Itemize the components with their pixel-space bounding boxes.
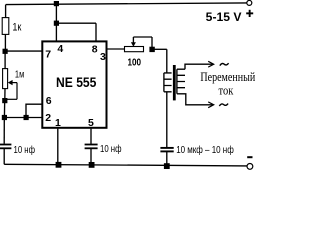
node pin2 bbox=[2, 115, 7, 120]
node C2 / rail bbox=[89, 162, 95, 168]
wire node to potentiometer R2 top bbox=[4, 51, 6, 69]
svg-text:ток: ток bbox=[219, 83, 235, 97]
wire pin8 drop bbox=[95, 23, 97, 40]
wire C4 to bottom rail bbox=[166, 152, 168, 166]
potentiometer R3 100 body bbox=[125, 47, 144, 52]
svg-text:8: 8 bbox=[92, 43, 98, 55]
wire pin6 bbox=[4, 104, 97, 165]
wire R1 bottom to node bbox=[4, 34, 6, 52]
svg-text:1к: 1к bbox=[12, 21, 21, 33]
wire pin7 bbox=[5, 50, 42, 52]
AC tilde symbol bottom bbox=[219, 104, 228, 106]
wire node to pin2 node bbox=[3, 101, 5, 119]
wire R2 bottom lead bbox=[4, 89, 6, 101]
arrow head top output bbox=[208, 61, 214, 67]
wire Vcc drop from top rail bbox=[55, 3, 57, 23]
transformer T1 primary winding bbox=[164, 73, 172, 92]
wire bottom arrow shaft bbox=[210, 104, 213, 106]
svg-text:NE 555: NE 555 bbox=[56, 74, 97, 90]
wire C1 to bottom rail bbox=[3, 149, 5, 164]
wire secondary top lead bbox=[185, 64, 210, 69]
wiper arm of R2 with arrowhead bbox=[5, 83, 17, 100]
wire wiper loop down bbox=[151, 37, 153, 49]
node R1/R2/pin7 bbox=[3, 49, 8, 54]
IC U1 NE 555 timer box bbox=[42, 41, 106, 127]
AC tilde symbol top bbox=[220, 63, 229, 65]
capacitor C2 10nF plates bbox=[85, 144, 98, 146]
wire pin3 to pot R3 bbox=[107, 48, 124, 50]
wire Vcc branch to pin8 bbox=[56, 22, 96, 24]
wire pin4 drop bbox=[55, 23, 57, 40]
wire pin1 bbox=[57, 129, 59, 165]
wire pin2 bbox=[4, 117, 42, 119]
svg-text:3: 3 bbox=[100, 51, 106, 63]
wire pin2 node down to capacitor C1 bbox=[3, 118, 5, 144]
potentiometer R2 1M body bbox=[3, 69, 8, 89]
svg-text:7: 7 bbox=[45, 49, 51, 61]
node pin1 / rail bbox=[56, 162, 62, 168]
wire top rail bbox=[6, 3, 247, 5]
node R3 output bbox=[149, 47, 154, 52]
svg-text:10 мкф – 10 нф: 10 мкф – 10 нф bbox=[176, 144, 234, 156]
svg-text:2: 2 bbox=[45, 112, 51, 124]
minus sign bbox=[247, 156, 252, 158]
transformer T1 secondary winding bbox=[177, 69, 185, 94]
svg-text:4: 4 bbox=[57, 43, 63, 55]
wire C2 to rail bbox=[90, 149, 92, 165]
node top rail / Vcc bbox=[54, 1, 59, 6]
svg-text:Переменный: Переменный bbox=[200, 70, 255, 84]
wire wiper loop top bbox=[133, 36, 152, 38]
wire primary to capacitor C4 bbox=[166, 92, 168, 147]
node R2 wiper return bbox=[2, 98, 7, 103]
wire R3 wiper stem bbox=[132, 37, 134, 43]
wire left rail upper bbox=[5, 5, 7, 18]
wire down to transformer T1 primary bbox=[166, 49, 168, 73]
wire top arrow shaft bbox=[210, 63, 213, 65]
transformer core bbox=[173, 65, 176, 100]
node C4 / rail bbox=[164, 163, 170, 169]
node pin6 branch bbox=[24, 115, 29, 120]
svg-text:10 нф: 10 нф bbox=[14, 144, 36, 156]
terminal ground circle bbox=[247, 164, 253, 170]
wire output node to transformer bbox=[152, 48, 167, 50]
resistor R1 1k body bbox=[2, 18, 9, 35]
arrow head bottom output bbox=[208, 102, 214, 108]
svg-text:5: 5 bbox=[88, 117, 94, 129]
svg-text:100: 100 bbox=[128, 57, 142, 69]
node Vcc branch bbox=[54, 21, 59, 26]
wire bottom rail bbox=[4, 164, 247, 166]
capacitor C1 10nF plates bbox=[0, 144, 11, 146]
capacitor C4 plates bbox=[160, 147, 173, 149]
wire pin5 bbox=[90, 129, 92, 144]
plus sign of supply label bbox=[246, 12, 253, 14]
wiper arrowhead of R3 bbox=[131, 42, 136, 46]
wire secondary bottom lead bbox=[185, 94, 210, 105]
svg-text:1: 1 bbox=[55, 117, 61, 129]
svg-text:6: 6 bbox=[46, 95, 52, 107]
svg-text:1м: 1м bbox=[15, 70, 24, 81]
terminal supply circle bbox=[247, 0, 252, 5]
svg-text:5-15 V: 5-15 V bbox=[206, 10, 242, 24]
svg-text:10 нф: 10 нф bbox=[100, 143, 122, 155]
